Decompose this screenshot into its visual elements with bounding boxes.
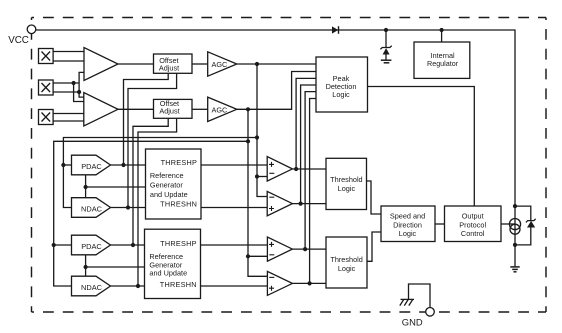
AGC U3: [208, 52, 237, 76]
wire U10 to speed logic: [367, 232, 381, 261]
amplifier A2: [84, 93, 118, 127]
wire C4 output: [292, 282, 326, 284]
svg-text:THRESHP: THRESHP: [161, 158, 198, 167]
svg-text:THRESHN: THRESHN: [160, 200, 197, 209]
svg-text:AGC: AGC: [212, 60, 228, 69]
wire X2 lower terminal: [53, 91, 79, 93]
svg-text:Control: Control: [461, 229, 485, 238]
svg-text:THRESHN: THRESHN: [160, 280, 197, 289]
zener Z1: [380, 46, 391, 60]
ground (signal ground under Z1): [381, 60, 392, 63]
hall element X3: [39, 110, 54, 125]
wire C1 output: [292, 168, 326, 170]
junction C4 out: [308, 281, 312, 285]
wire PDAC1-NDAC1 common: [85, 175, 87, 198]
junction AGC2 tap: [246, 107, 250, 111]
svg-text:PDAC: PDAC: [81, 162, 102, 171]
wire A1 to offset adjust U1: [118, 63, 154, 65]
wire PDAC1 output: [111, 164, 146, 166]
wire AGC2 signal vertical: [248, 109, 267, 276]
wire X2 upper terminal: [53, 82, 79, 84]
svg-text:Adjust: Adjust: [159, 63, 179, 72]
wire stub PDAC2 input: [54, 244, 72, 246]
wire VCC rail: [36, 30, 515, 206]
svg-text:GND: GND: [402, 316, 423, 327]
wire to internal regulator: [441, 30, 443, 42]
wire peak detection to output protocol: [368, 87, 475, 207]
peak detection logic U5: [316, 57, 368, 112]
wire C1 to peak detection: [296, 78, 316, 169]
svg-text:Logic: Logic: [332, 90, 350, 99]
svg-text:Reference: Reference: [150, 171, 184, 180]
wire signal bus 2 to DAC2 inputs: [54, 141, 248, 286]
junction feedback C: [131, 243, 135, 247]
output protocol control U12: [445, 206, 502, 242]
NDAC2: [72, 276, 111, 296]
junction C3 out: [303, 247, 307, 251]
svg-text:and Update: and Update: [149, 269, 187, 278]
wire X1 to amp A1 upper: [53, 51, 84, 53]
wire GND to chassis ground: [409, 284, 431, 308]
reference generator U8: [145, 229, 201, 298]
GND terminal: [426, 308, 435, 317]
wire AGC1 signal vertical: [257, 64, 267, 197]
svg-text:NDAC: NDAC: [81, 283, 103, 292]
wire X3 to amp A2 upper: [53, 113, 84, 115]
junction feedback D: [136, 284, 140, 288]
wire C3 to peak detection: [305, 92, 316, 250]
wire THRESHP2 to C3: [201, 244, 268, 246]
reference generator U7: [146, 149, 202, 219]
wire U3 to peak detection logic: [237, 63, 316, 65]
svg-text:Logic: Logic: [338, 264, 356, 273]
PDAC1: [72, 155, 111, 175]
wire to zener Z1: [385, 30, 387, 47]
wire NDAC1 output: [111, 207, 146, 209]
comparator C2: [267, 191, 292, 215]
junction output top: [513, 204, 517, 208]
wire stub PDAC1 input: [63, 164, 71, 166]
wire X1 to amp A1 lower: [53, 60, 84, 62]
wire U4 to peak detection logic: [237, 72, 316, 110]
diode D1: [332, 26, 339, 34]
wire C2 output: [292, 203, 326, 205]
junction C1 out: [294, 167, 298, 171]
wire U1 to AGC U3: [192, 63, 208, 65]
offset adjust U2: [154, 99, 193, 118]
svg-text:NDAC: NDAC: [81, 204, 103, 213]
comparator C3: [267, 237, 292, 261]
wire stub comparator C3 minus: [248, 255, 267, 257]
hall element X2: [39, 80, 54, 95]
zener Z2: [515, 219, 536, 245]
threshold logic U10: [326, 237, 367, 288]
svg-text:Adjust: Adjust: [159, 107, 179, 116]
VCC terminal: [27, 25, 36, 34]
wire U9 to speed logic: [367, 181, 382, 214]
wire U12 to current source: [501, 223, 515, 225]
junction DAC1 mid: [84, 185, 88, 189]
junction PDAC1 input: [61, 163, 65, 167]
junction C1 minus: [255, 174, 259, 178]
wire PDAC2 output: [111, 244, 145, 246]
wire to zener Z2: [515, 206, 531, 220]
junction X2b: [77, 90, 81, 94]
wire X2a to amp A2: [74, 83, 84, 102]
junction rail-zener: [384, 28, 388, 32]
wire U2 to AGC U4: [192, 108, 208, 110]
wire THRESHP1 to C1: [201, 164, 267, 166]
wire C2 to peak detection: [301, 85, 316, 204]
svg-text:Logic: Logic: [338, 184, 356, 193]
AGC U4: [208, 97, 237, 121]
wire U11 to U12: [435, 223, 445, 225]
svg-text:AGC: AGC: [212, 105, 228, 114]
junction bus1 tap: [255, 135, 259, 139]
wire signal bus 1 to DAC1 inputs: [63, 138, 257, 208]
amplifier A1: [84, 48, 118, 81]
junction output bottom: [513, 243, 517, 247]
wire DAC1 mid to reference generator: [86, 186, 146, 188]
internal regulator U6: [414, 42, 470, 78]
offset adjust U1: [154, 54, 193, 73]
wire offset feedback D: [138, 118, 177, 286]
comparator C4: [267, 271, 292, 295]
junction PDAC2 input: [52, 243, 56, 247]
comparator C1: [267, 157, 292, 182]
current source I1: [509, 206, 520, 245]
wire X2b to amps A1 A2: [79, 72, 84, 97]
wire C3 output: [292, 248, 326, 250]
junction C3 minus: [246, 254, 250, 258]
junction bus2 tap: [246, 139, 250, 143]
hall element X1: [39, 49, 54, 64]
wire offset feedback C: [133, 118, 168, 245]
junction C2 out: [299, 202, 303, 206]
svg-text:Threshold: Threshold: [330, 175, 362, 184]
svg-text:Threshold: Threshold: [330, 255, 362, 264]
svg-text:THRESHP: THRESHP: [160, 239, 197, 248]
svg-text:Logic: Logic: [399, 229, 417, 238]
wire offset feedback B: [128, 73, 177, 207]
wire offset feedback A: [124, 73, 169, 165]
ground (chassis near GND): [400, 299, 414, 305]
svg-text:Speed and: Speed and: [390, 212, 425, 221]
wire stub comparator C1 minus: [257, 176, 267, 178]
svg-text:PDAC: PDAC: [81, 242, 102, 251]
junction feedback A: [121, 163, 125, 167]
wire THRESHN1 to C2: [201, 207, 267, 209]
NDAC1: [72, 198, 111, 218]
threshold logic U9: [326, 158, 367, 209]
wire THRESHN2 to C4: [201, 285, 268, 287]
speed and direction logic U11: [381, 206, 435, 242]
junction AGC1 tap: [255, 62, 259, 66]
svg-text:Generator: Generator: [150, 181, 183, 190]
svg-text:Regulator: Regulator: [427, 59, 459, 68]
wire DAC2 mid to reference generator: [86, 266, 145, 268]
wire PDAC2-NDAC2 common: [85, 255, 87, 276]
PDAC2: [72, 235, 111, 255]
junction DAC2 mid: [84, 265, 88, 269]
wire NDAC2 output: [111, 285, 145, 287]
svg-text:VCC: VCC: [8, 35, 29, 46]
svg-text:Output: Output: [462, 212, 484, 221]
ground (earth under output): [510, 245, 519, 272]
wire C4 to peak detection: [310, 99, 316, 284]
wire X3 to amp A2 lower: [53, 120, 84, 122]
svg-text:and Update: and Update: [150, 190, 188, 199]
junction X2a: [72, 81, 76, 85]
junction feedback B: [126, 205, 130, 209]
wire A2 to offset adjust U2: [118, 108, 154, 110]
junction rail-regulator: [440, 28, 444, 32]
